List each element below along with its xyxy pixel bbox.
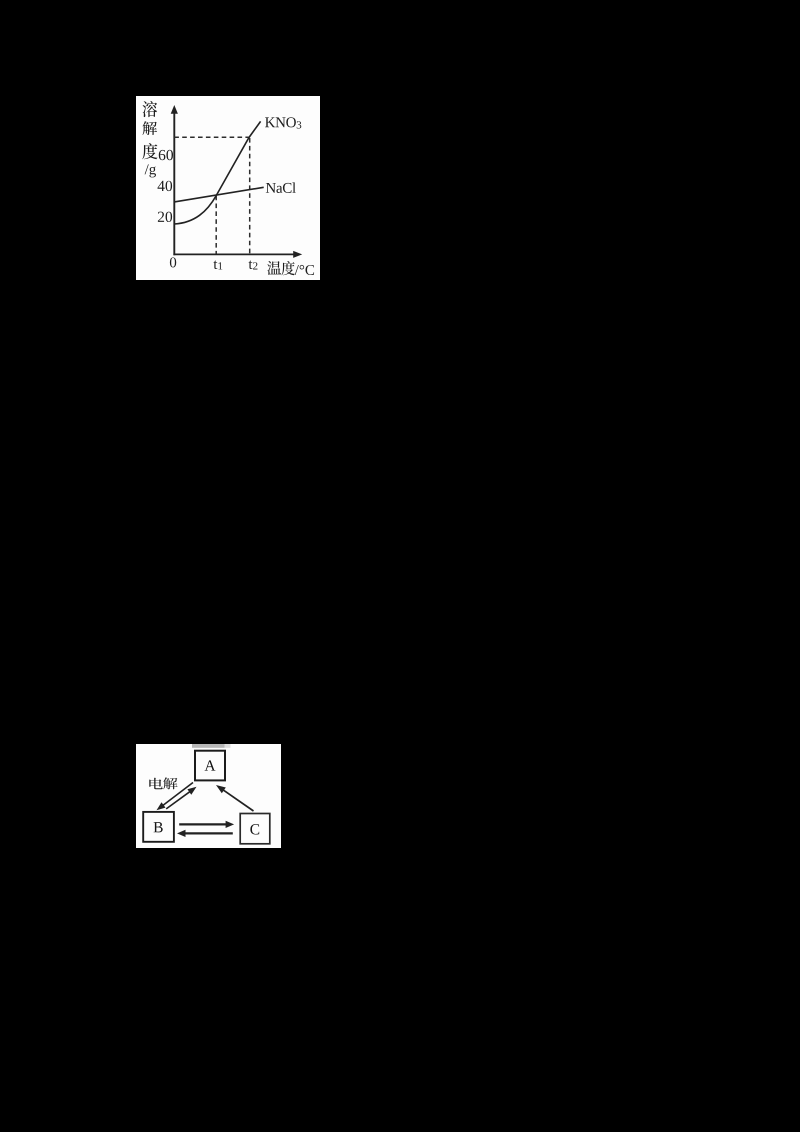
box B xyxy=(143,811,174,841)
x-axis (temperature axis) xyxy=(173,253,295,255)
axis label char 溶 xyxy=(143,101,158,117)
dashed guide line vertical at t1 xyxy=(215,196,217,254)
x tick label t1 xyxy=(213,260,222,269)
x tick label t2 xyxy=(249,260,258,269)
box C letter xyxy=(250,824,259,834)
x-axis title /degC xyxy=(295,265,314,275)
arrow C to B xyxy=(183,832,232,834)
y tick label 20 xyxy=(158,212,172,222)
dashed guide line horizontal at KNO3(t2) level xyxy=(174,136,248,138)
KNO3 curve label xyxy=(265,117,301,128)
box B letter xyxy=(154,822,163,832)
arrow A to B (electrolysis) xyxy=(162,782,193,806)
axis label char 度 xyxy=(142,143,157,159)
axis label char 解 xyxy=(142,121,157,135)
arrow B to C xyxy=(179,823,228,825)
y tick label 60 xyxy=(159,150,173,160)
x-axis title char 度 xyxy=(282,261,295,275)
y-axis (solubility axis) xyxy=(173,108,175,255)
KNO3 solubility curve xyxy=(174,121,260,224)
box A xyxy=(195,750,225,780)
scan smudge strip xyxy=(192,744,225,748)
label char 解 xyxy=(163,777,177,789)
box A letter xyxy=(205,760,216,770)
box C xyxy=(240,813,270,843)
NaCl curve label xyxy=(266,182,296,193)
NaCl solubility curve xyxy=(174,187,263,202)
x-axis title char 温 xyxy=(267,261,281,275)
arrow C to A xyxy=(222,789,254,811)
y tick label 40 xyxy=(158,181,173,191)
axis label /g xyxy=(145,164,156,177)
dashed guide line vertical at t2 xyxy=(249,138,251,254)
solubility chart panel xyxy=(136,96,320,280)
arrow B to A xyxy=(166,790,191,808)
origin label 0 xyxy=(170,257,176,267)
A/B/C conversion diagram panel xyxy=(136,744,281,849)
label char 电 xyxy=(149,777,163,788)
